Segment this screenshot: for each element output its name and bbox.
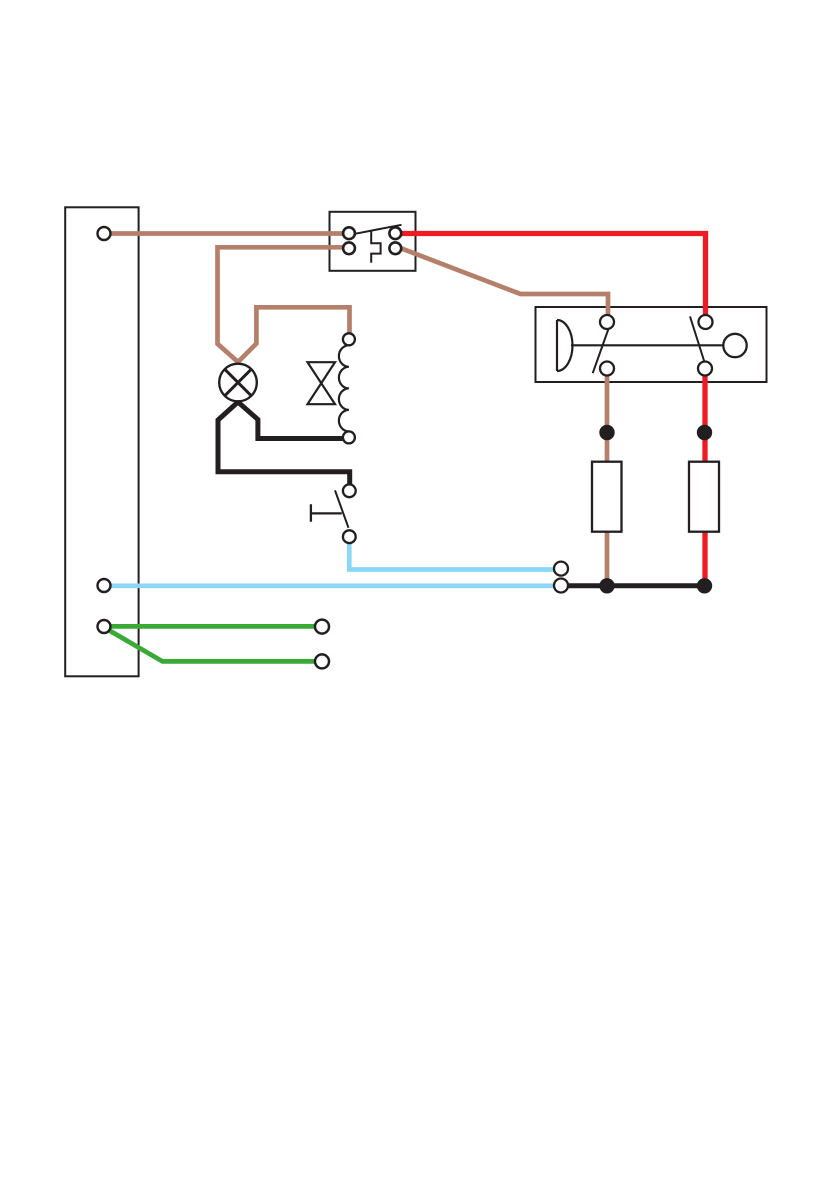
- coil terminal bottom: [343, 431, 355, 443]
- switch terminal 4: [389, 242, 401, 254]
- coil: [339, 345, 349, 431]
- wire black: bottom bus: [564, 583, 705, 588]
- bell left contact blade: [593, 329, 609, 374]
- push button blade: [335, 490, 349, 527]
- earth terminal 1: [315, 620, 329, 634]
- wire green earth: consumer unit to terminal 1: [107, 624, 316, 629]
- wire red: bell right contact through resistor R2 to bus: [702, 369, 707, 587]
- resistor R2: [689, 462, 719, 532]
- consumer unit terminal neutral: [98, 579, 111, 592]
- junction dot C: [599, 578, 614, 593]
- switch terminal 2: [343, 242, 355, 254]
- consumer unit terminal earth: [98, 620, 111, 633]
- switch lever: [355, 225, 402, 234]
- junction dot B: [697, 425, 712, 440]
- wire brown: bell contact to resistor R1 and bus: [605, 369, 610, 587]
- wire brown live: consumer unit to switch terminal 1: [111, 231, 350, 236]
- lamp: [219, 364, 257, 402]
- switch terminal 1: [343, 227, 355, 239]
- bell left contact terminal top: [600, 315, 614, 329]
- neutral terminal bottom: [554, 579, 568, 593]
- wire red: switch terminal 3 to bell unit right contact: [400, 234, 706, 323]
- push button terminal top: [343, 484, 356, 497]
- two-way switch box U1: [330, 212, 416, 271]
- wire brown: switch terminal 2 to lamp to coil top: [218, 247, 350, 362]
- bell gong: [557, 320, 573, 371]
- wire blue neutral: push button to terminal: [349, 537, 557, 570]
- coil terminal top: [343, 333, 355, 345]
- push button actuator: [311, 504, 342, 522]
- bell right contact terminal top: [699, 315, 713, 329]
- bell link bar: [571, 344, 723, 346]
- junction dot A: [599, 425, 614, 440]
- bell right contact blade: [690, 316, 704, 361]
- wire black: lamp to coil bottom: [238, 402, 345, 439]
- bell actuator circle: [723, 334, 746, 357]
- wire brown: switch terminal 4 to bell unit left contact: [399, 248, 608, 323]
- switch terminal 3: [389, 227, 401, 239]
- push button terminal bottom: [343, 530, 356, 543]
- bell left contact terminal bottom: [600, 362, 614, 376]
- resistor R1: [592, 462, 622, 532]
- junction dot D: [697, 578, 712, 593]
- buzzer: [308, 362, 336, 404]
- wire green earth: branch to terminal 2: [106, 629, 316, 662]
- bell unit box U2: [536, 307, 767, 382]
- consumer unit box: [65, 207, 138, 676]
- wire blue neutral: consumer unit to terminal: [111, 583, 557, 588]
- wire black: lamp to push button: [218, 402, 350, 487]
- consumer unit terminal live: [98, 227, 111, 240]
- bell right contact terminal bottom: [698, 362, 712, 376]
- earth terminal 2: [315, 654, 329, 668]
- switch actuator: [371, 231, 380, 263]
- neutral terminal top: [554, 562, 568, 576]
